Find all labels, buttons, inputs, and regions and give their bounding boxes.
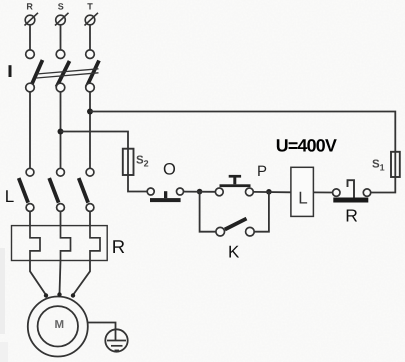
motor M (28, 297, 88, 357)
wire relay R to motor left (30, 261, 46, 296)
wire control feed from T node to fuse S1 (90, 112, 395, 153)
contact K (latching auxiliary contact) (216, 219, 254, 236)
wire terminal T to switch I (89, 25, 91, 50)
node motor terminal middle (57, 292, 61, 296)
wire button P to coil L (253, 191, 291, 193)
svg-text:P: P (257, 163, 267, 180)
earth ground symbol (105, 329, 127, 351)
wire phase T: switch I to contactor L (89, 92, 91, 169)
wire terminal S to switch I (60, 25, 62, 50)
svg-text:L: L (298, 189, 307, 208)
svg-text:U=400V: U=400V (276, 135, 337, 155)
node control tap on phase T (87, 109, 93, 115)
wire relay R to motor right (73, 261, 90, 296)
wire phase R: switch I to contactor L (29, 92, 31, 169)
svg-text:R: R (345, 206, 358, 226)
svg-text:O: O (163, 161, 176, 179)
wire contactor L to relay R pole R (29, 211, 31, 226)
relay R heater element phase T (90, 226, 100, 261)
switch I coupling bar (37, 69, 99, 78)
fuse S1 (391, 152, 400, 177)
switch I pole S (56, 50, 69, 92)
svg-text:R: R (112, 236, 125, 257)
contactor L pole T (79, 168, 94, 211)
switch I pole R (26, 50, 43, 92)
wire K branch left (200, 192, 216, 232)
switch I pole T (86, 50, 99, 92)
terminal S (55, 13, 69, 26)
terminal T (85, 13, 99, 26)
svg-text:R: R (26, 2, 33, 12)
relay R heater element phase R (30, 226, 40, 261)
coil L box (291, 167, 314, 216)
fuse S2 (123, 149, 134, 175)
wire button O to button P (184, 191, 216, 193)
wire motor frame to earth (88, 323, 116, 341)
wire relay R to motor middle (60, 261, 61, 295)
wire K branch right (254, 192, 269, 232)
node control tap on phase S (58, 129, 64, 135)
button P (NO start) (215, 175, 253, 196)
node junction O to K branch (197, 189, 203, 195)
svg-text:K: K (228, 243, 240, 262)
button O (NC stop) (147, 188, 183, 202)
wire phase S: switch I to contactor L (60, 92, 62, 169)
svg-text:M: M (55, 319, 65, 331)
svg-text:T: T (87, 2, 93, 12)
wire contact R to fuse S1 (371, 177, 396, 193)
node motor terminal left (44, 293, 48, 297)
relay R heater element phase S (61, 226, 71, 261)
svg-text:S: S (58, 2, 64, 12)
wire coil L to contact R (313, 191, 332, 193)
svg-text:L: L (5, 187, 14, 206)
wire contactor L to relay R pole S (60, 211, 62, 226)
wire control feed from S node to fuse S2 (61, 132, 129, 150)
label I (main switch) (9, 65, 12, 77)
thermal relay R box (12, 226, 108, 261)
terminal R (25, 13, 39, 26)
contactor L pole S (49, 168, 64, 211)
wire fuse S2 to button O (128, 175, 147, 192)
node motor terminal right (71, 293, 75, 297)
contact R (thermal relay NC trip contact) (333, 180, 371, 202)
wire terminal R to switch I (29, 25, 31, 50)
wire contactor L to relay R pole T (89, 211, 91, 226)
node junction P to K branch (266, 189, 272, 195)
contactor L pole R (19, 168, 34, 211)
